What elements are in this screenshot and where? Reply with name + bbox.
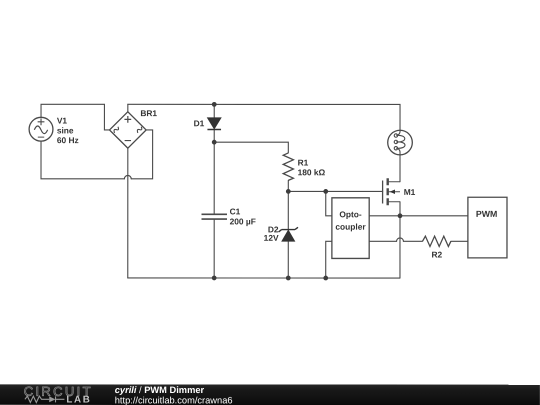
wire top rail to lamp xyxy=(128,104,400,132)
wire opto pin1 to gate wire xyxy=(326,191,332,215)
svg-text:cyrili / PWM Dimmer: cyrili / PWM Dimmer xyxy=(115,385,205,395)
wire R1 bottom to gate node xyxy=(287,180,289,191)
wire bridge plus output to top rail xyxy=(127,104,129,111)
footer bar xyxy=(0,384,540,405)
logo resistor-diode glyph xyxy=(25,396,65,402)
wire top rail junction to D1 xyxy=(213,104,215,117)
node gate wire / opto pin1 xyxy=(323,189,328,194)
wire V1 bottom to bridge right AC terminal (with hop) xyxy=(41,130,153,179)
svg-text:180 kΩ: 180 kΩ xyxy=(298,167,326,177)
lamp xyxy=(388,130,413,155)
wire M1 source down to bottom rail xyxy=(399,202,401,278)
wire source node to PWM box xyxy=(400,215,468,217)
node opto pin2 / bottom rail xyxy=(323,276,328,281)
svg-text:D1: D1 xyxy=(194,118,205,128)
node R1 / D2 / gate xyxy=(286,189,291,194)
svg-text:12V: 12V xyxy=(264,233,279,243)
svg-text:M1: M1 xyxy=(404,187,416,197)
svg-text:C1: C1 xyxy=(230,206,241,216)
MOSFET M1 xyxy=(383,178,400,205)
svg-text:PWM: PWM xyxy=(476,209,498,219)
wire gate node to D2 cathode xyxy=(287,191,289,229)
PWM box xyxy=(468,197,507,258)
M1 body arrow xyxy=(390,190,395,194)
wire hop over bridge bottom wire xyxy=(124,175,131,178)
label R1 180 kOhm xyxy=(298,158,326,178)
node source / opto pin4 / PWM xyxy=(398,213,403,218)
svg-text:BR1: BR1 xyxy=(140,108,157,118)
label C1 200 uF xyxy=(230,206,256,226)
capacitor C1 xyxy=(201,214,227,219)
node top rail / D1 xyxy=(212,102,217,107)
svg-text:R2: R2 xyxy=(432,249,443,259)
wire C1 bottom plate to bottom rail xyxy=(213,220,215,278)
wire gate node to M1 gate xyxy=(288,190,382,192)
wire V1 top to bridge left AC terminal xyxy=(41,104,110,130)
svg-text:R1: R1 xyxy=(298,158,309,168)
svg-text:200 µF: 200 µF xyxy=(230,216,256,226)
label D2 12V xyxy=(264,224,279,242)
wire opto pin3 toward R2 (with hop) xyxy=(369,240,422,242)
svg-text:V1: V1 xyxy=(57,116,68,126)
svg-text:coupler: coupler xyxy=(335,222,366,232)
wire opto pin4 to source node xyxy=(369,215,400,217)
wire R2 to PWM box xyxy=(451,240,468,242)
svg-text:Opto-: Opto- xyxy=(339,209,362,219)
wire bridge minus to bottom rail xyxy=(127,148,129,278)
zener diode D2 xyxy=(279,227,298,241)
wire D1 cathode to node xyxy=(213,129,215,142)
wire node to C1 top plate xyxy=(213,142,215,213)
bridge rectifier BR1 xyxy=(110,112,147,148)
svg-text:LAB: LAB xyxy=(66,395,91,405)
resistor R2 xyxy=(422,236,450,246)
label V1 sine 60 Hz xyxy=(57,116,79,146)
wire lamp to M1 drain xyxy=(399,152,401,182)
wire opto pin2 to bottom rail xyxy=(326,241,332,278)
voltage source V1 xyxy=(29,117,53,141)
diode D1 xyxy=(207,118,221,130)
junction dots xyxy=(212,102,403,280)
label Opto-coupler xyxy=(335,209,366,231)
resistor R1 xyxy=(283,153,293,181)
wire bottom rail xyxy=(128,277,400,279)
node C1 / bottom rail xyxy=(212,276,217,281)
node D2 / bottom rail xyxy=(286,276,291,281)
node D1 / C1 / R1 xyxy=(212,140,217,145)
svg-text:sine: sine xyxy=(57,125,74,135)
svg-text:60 Hz: 60 Hz xyxy=(57,135,79,145)
wire node to R1 top xyxy=(214,142,288,153)
wire D2 anode to bottom rail xyxy=(287,241,289,278)
svg-text:http://circuitlab.com/crawna6: http://circuitlab.com/crawna6 xyxy=(115,395,233,405)
opto-coupler box xyxy=(332,198,369,259)
wire hop over source wire xyxy=(397,238,404,241)
